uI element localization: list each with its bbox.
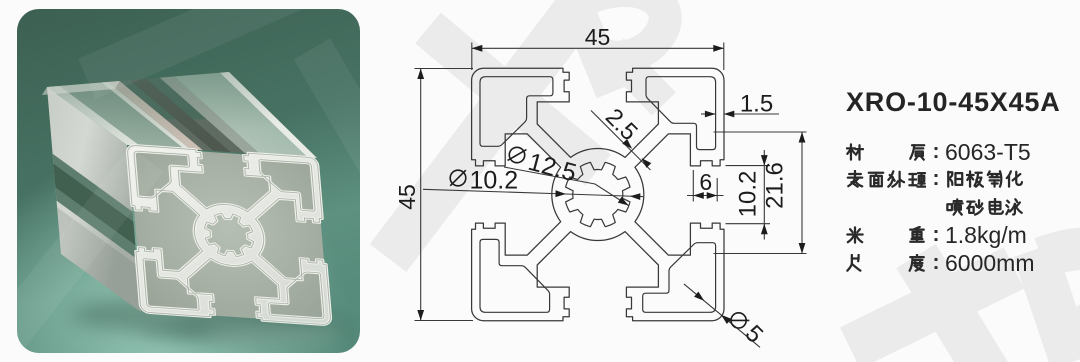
watermark X (over drawing) leg 1: [428, 28, 598, 170]
spec row: material: [846, 143, 864, 161]
photo: far end slivers: [42, 81, 120, 95]
spec row: length label: [846, 254, 864, 272]
photo: extrusion top face (rails and slot channel): [47, 86, 140, 146]
photo: ground shadow: [72, 295, 332, 335]
dimension 45 (top width): [471, 43, 473, 71]
watermark R (over drawing): [572, 0, 665, 104]
watermark XR (bottom right corner): [850, 249, 1080, 362]
corner block cavity top-right: [646, 77, 716, 150]
product code title: [846, 87, 1061, 118]
dimension 21.6 (slot inner width): [714, 131, 807, 133]
corner block cavity bottom-right: [643, 243, 716, 313]
dimension 6 (slot lip depth): [692, 170, 694, 202]
photo: faint watermark: [0, 0, 382, 349]
dimension dia 12.5 (spline root circle): [504, 167, 629, 206]
profile outer outline: [472, 68, 724, 320]
dimension 45 (left height): [415, 68, 474, 70]
dimension 1.5 (wall thickness): [701, 113, 715, 115]
dimension dia 5 (corner screw hole): [684, 284, 760, 347]
corner block cavity top-left: [480, 77, 553, 147]
center splined bore: [566, 162, 630, 226]
photo: extrusion left side face: [47, 87, 141, 312]
photo: end face cross-section: [127, 145, 331, 325]
dimension dia 10.2 (center bore): [423, 189, 566, 194]
dimension 2.5 (rib thickness): [591, 111, 651, 171]
spec row: surface treatment label: [846, 170, 864, 188]
spec value: anodic oxidation: [946, 170, 964, 188]
photo green background: [17, 9, 360, 353]
spec row: weight label: [846, 226, 864, 244]
dimension 10.2 (slot opening): [726, 165, 771, 167]
watermark X (over drawing) leg 2: [388, 8, 578, 258]
spec value: sandblast electrophoresis: [946, 198, 964, 216]
corner block cavity bottom-left: [480, 239, 550, 312]
